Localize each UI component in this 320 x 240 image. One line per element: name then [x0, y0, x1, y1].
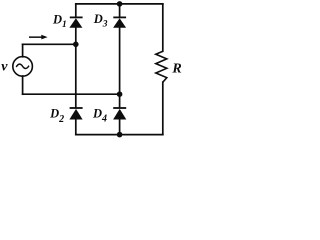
diode D3: [113, 17, 126, 28]
node junction top (middle rail / top rail): [117, 1, 123, 7]
wire right rail lower (resistor to bottom corner): [162, 82, 164, 134]
svg-text:D1: D1: [52, 12, 67, 30]
diode D2: [69, 107, 82, 119]
wire right rail upper (top corner to resistor): [162, 4, 164, 51]
ac source VS: [13, 57, 33, 77]
wire source vertical lower: [22, 76, 24, 94]
wire bottom rail: [76, 134, 163, 136]
wire source top lead: [23, 43, 76, 45]
diode D1: [69, 17, 82, 28]
wire left rail lower (D2 to bottom corner): [75, 119, 77, 134]
wire left rail middle (D1 to D2 through source junction): [75, 28, 77, 108]
wire top rail: [76, 3, 163, 5]
svg-text:D2: D2: [49, 107, 64, 125]
svg-text:D3: D3: [93, 12, 108, 30]
wire source bottom lead (crosses left rail, joins middle rail): [23, 93, 120, 95]
wire middle rail middle (D3 to D4 through source-return junction): [119, 28, 121, 108]
node junction source- (middle rail): [117, 91, 123, 97]
wire left rail upper (top corner to D1): [75, 4, 77, 17]
node junction source+ (left rail): [73, 42, 79, 48]
wire source vertical upper: [22, 44, 24, 57]
resistor R zigzag: [156, 51, 167, 82]
node junction bottom (middle rail / bottom rail): [117, 132, 123, 138]
wire middle rail upper (top junction to D3): [119, 4, 121, 17]
svg-text:D4: D4: [92, 106, 107, 124]
current arrow: [29, 35, 48, 40]
svg-text:R: R: [171, 62, 181, 77]
diode D4: [113, 107, 126, 119]
wire middle rail lower (D4 to bottom junction): [119, 119, 121, 134]
svg-text:v: v: [1, 60, 8, 75]
